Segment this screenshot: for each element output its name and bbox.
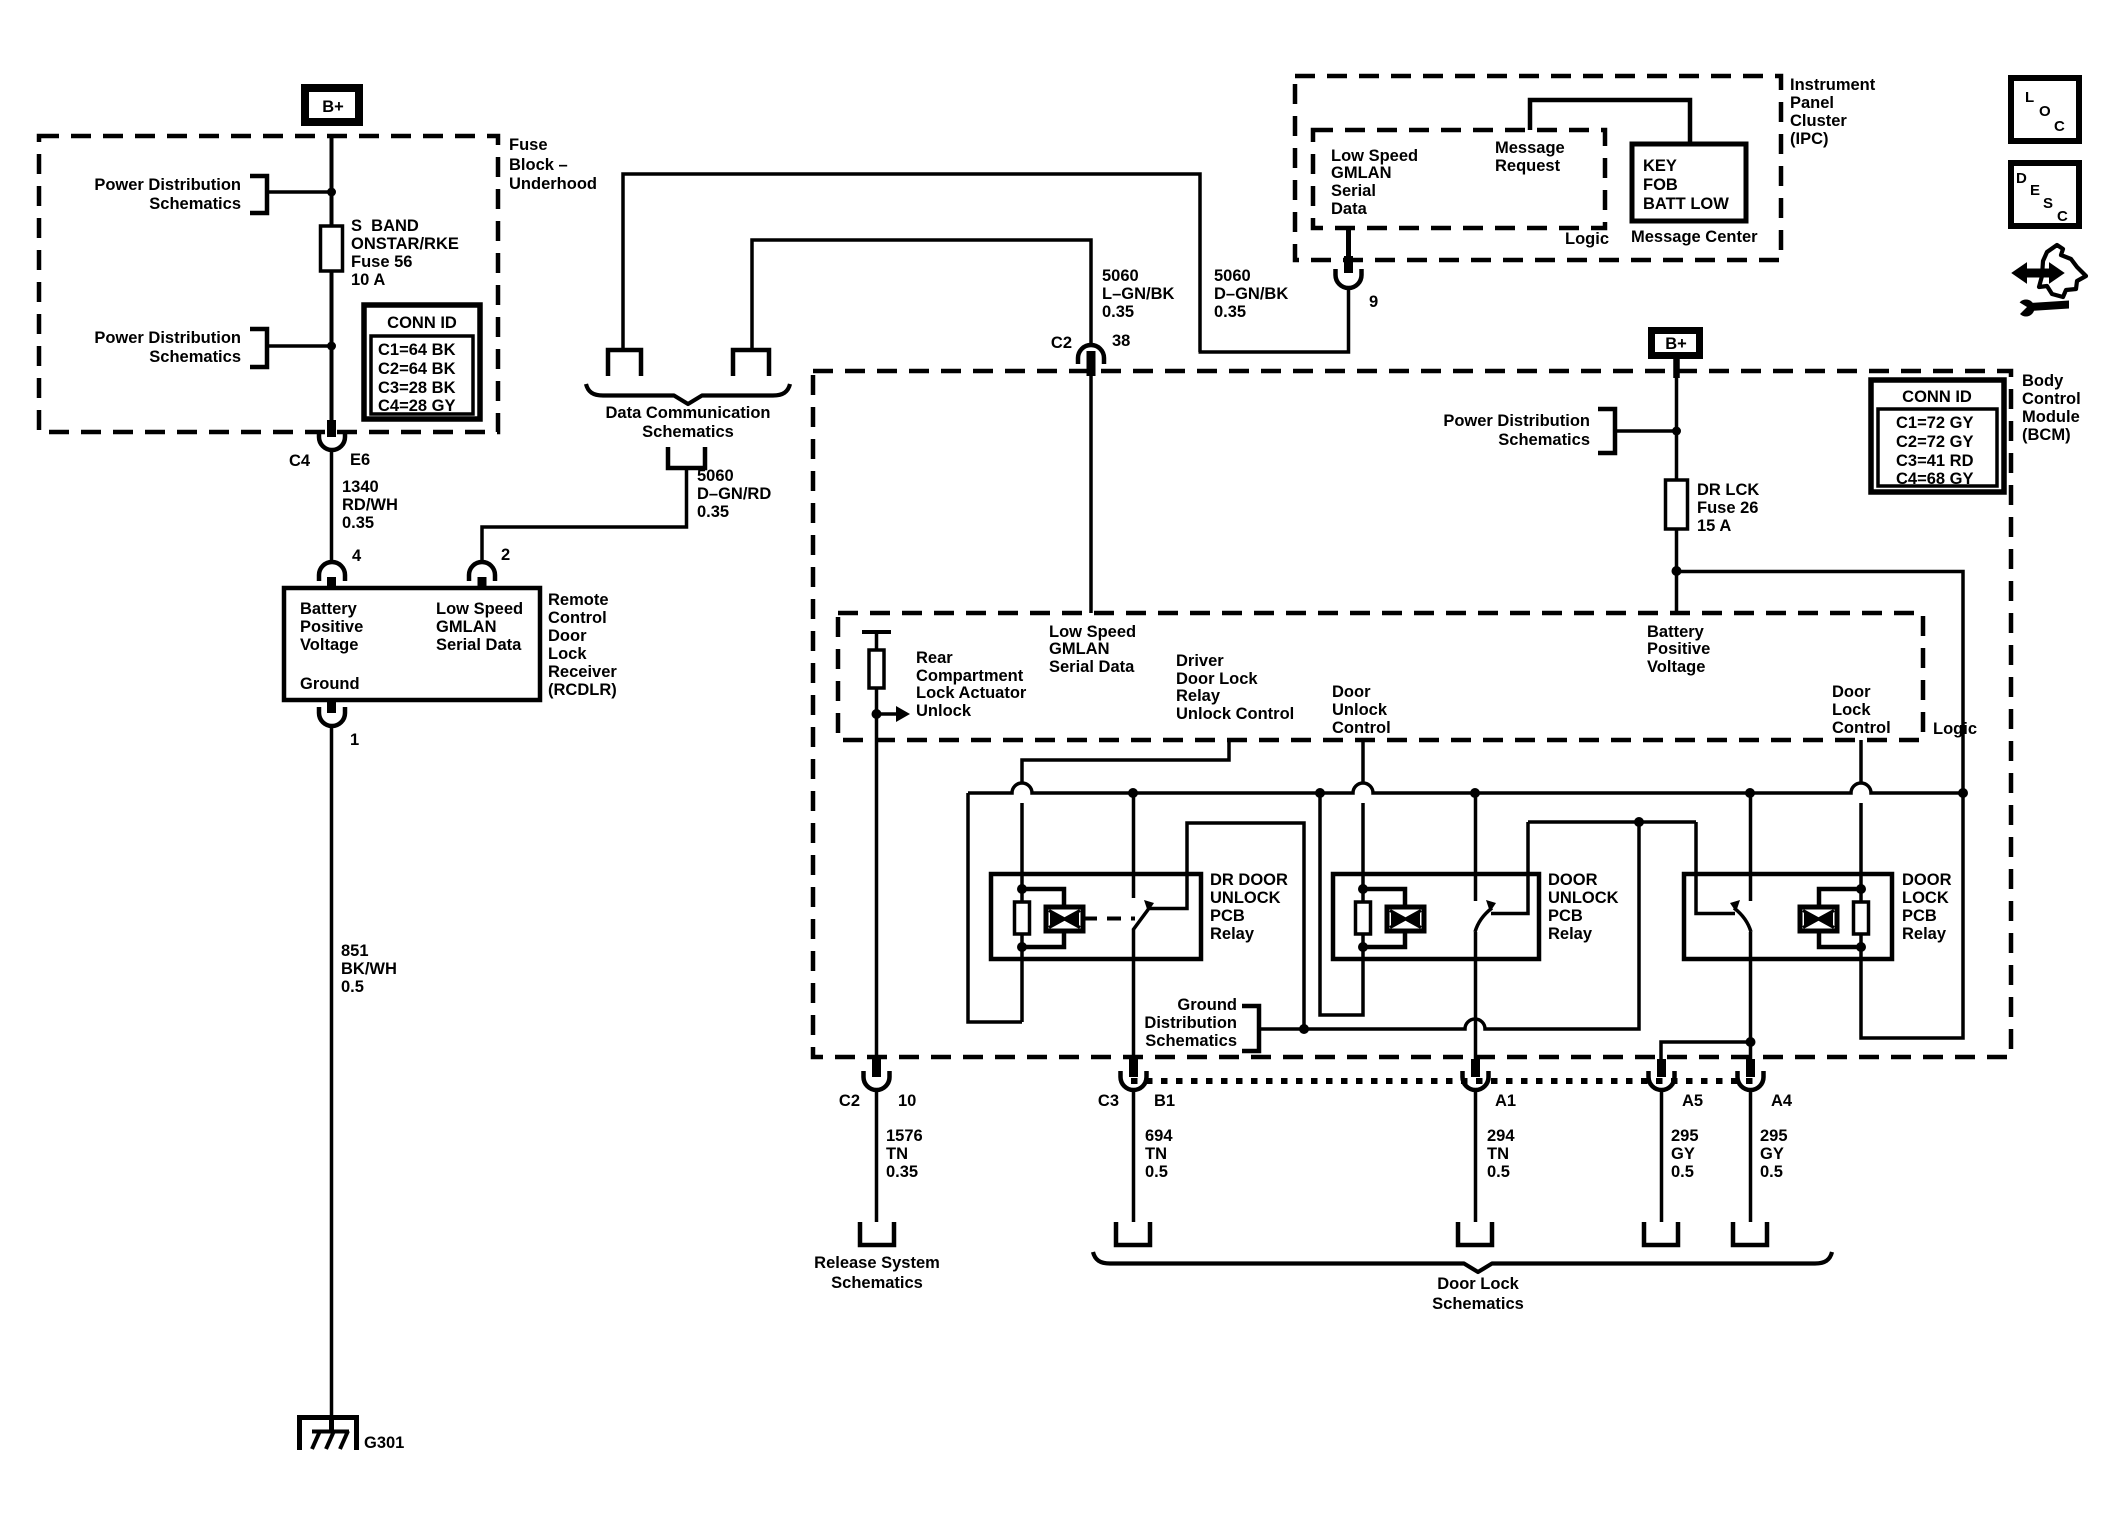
label rear compartment lock actuator unlock: [916, 649, 1027, 720]
wire data bus lower (to BCM C2): [752, 240, 1091, 350]
svg-text:Relay: Relay: [1548, 925, 1593, 943]
terminal A4: [1733, 1222, 1767, 1245]
svg-text:E6: E6: [350, 451, 370, 469]
node junction upper PDS: [327, 188, 336, 197]
svg-text:A1: A1: [1495, 1092, 1516, 1110]
svg-text:Driver: Driver: [1176, 652, 1224, 670]
svg-text:D–GN/RD: D–GN/RD: [697, 485, 771, 503]
svg-text:G301: G301: [364, 1434, 404, 1452]
svg-text:Rear: Rear: [916, 649, 953, 667]
B+ battery positive symbol (fuse block feed): [305, 88, 359, 122]
svg-text:Fuse 26: Fuse 26: [1697, 499, 1758, 517]
svg-text:C3: C3: [1098, 1092, 1119, 1110]
rear compartment lock actuator element: [862, 632, 910, 1059]
pin 1 connector (RCDLR ground): [319, 700, 359, 749]
svg-text:0.5: 0.5: [1671, 1163, 1694, 1181]
svg-text:Relay: Relay: [1176, 687, 1221, 705]
svg-text:Logic: Logic: [1565, 230, 1609, 248]
fuse 26 DR LCK: [1666, 480, 1760, 535]
svg-text:PCB: PCB: [1548, 907, 1583, 925]
relay 2 coil return to bus: [1320, 793, 1363, 1015]
svg-text:15 A: 15 A: [1697, 517, 1731, 535]
svg-text:0.5: 0.5: [341, 978, 364, 996]
terminal (data communication left): [608, 350, 641, 376]
relay 1 switch: [1133, 793, 1304, 1029]
brace data communication: [586, 384, 790, 404]
svg-text:L: L: [2025, 89, 2034, 106]
svg-text:O: O: [2039, 103, 2051, 120]
svg-text:Door: Door: [1332, 683, 1371, 701]
bus left return leg (relay 1 coil return): [968, 793, 1022, 1022]
node bus to relay 1 switch: [1128, 788, 1138, 798]
label driver door lock relay unlock control: [1176, 652, 1294, 723]
label door lock control: [1832, 683, 1891, 737]
label door unlock control: [1332, 683, 1391, 737]
wire GMLAN into BCM logic: [1089, 374, 1093, 613]
svg-text:5060: 5060: [1102, 267, 1139, 285]
svg-text:Schematics: Schematics: [1145, 1032, 1237, 1050]
relay 2 switch common to A1: [1474, 932, 1478, 1060]
pin 4 connector (RCDLR): [319, 547, 362, 590]
wire 294 TN 0.5: [1474, 1090, 1478, 1222]
svg-text:Module: Module: [2022, 408, 2080, 426]
terminal B1: [1116, 1222, 1150, 1245]
node A5/A4 tie: [1746, 1037, 1756, 1047]
svg-text:10: 10: [898, 1092, 916, 1110]
instrument panel cluster dashed box: [1295, 76, 1781, 260]
svg-text:1: 1: [350, 731, 359, 749]
connector C2 pin 38 (BCM): [1051, 332, 1130, 376]
svg-text:Low Speed: Low Speed: [436, 600, 523, 618]
svg-text:Positive: Positive: [1647, 640, 1710, 658]
wire 5060 D-GN/RD 0.35 to pin 2: [482, 468, 687, 562]
svg-text:38: 38: [1112, 332, 1130, 350]
IPC logic dashed box: [1313, 130, 1605, 228]
wire driver door lock relay unlock control: [1022, 740, 1229, 783]
svg-text:Serial Data: Serial Data: [1049, 658, 1135, 676]
relay 3 coil winding: [1800, 889, 1861, 947]
svg-text:S BAND: S BAND: [351, 217, 419, 235]
svg-text:Underhood: Underhood: [509, 175, 597, 193]
RCDLR label: [548, 591, 617, 699]
svg-text:GY: GY: [1671, 1145, 1695, 1163]
body control module dashed box: [813, 371, 2011, 1057]
node junction lower PDS: [327, 342, 336, 351]
svg-text:Ground: Ground: [300, 675, 360, 693]
relay 1 label: [1210, 871, 1288, 943]
wire 295 GY 0.5 (A4): [1749, 1090, 1753, 1222]
svg-text:Serial Data: Serial Data: [436, 636, 522, 654]
node bus to relay 3 switch: [1745, 788, 1755, 798]
svg-text:D: D: [2016, 170, 2027, 187]
RCDLR module box: [284, 588, 540, 700]
node bus right feed: [1958, 788, 1968, 798]
relay 3 switch: [1696, 793, 1751, 932]
svg-text:C4=68 GY: C4=68 GY: [1896, 470, 1974, 488]
bracket under schematics: [668, 447, 705, 468]
svg-text:Door Lock: Door Lock: [1176, 670, 1258, 688]
svg-text:Door: Door: [1832, 683, 1871, 701]
service tool icon (double arrow and wrench): [2013, 245, 2086, 317]
node ground to relay 1 switch output: [1299, 1024, 1309, 1034]
relay 2 coil winding: [1363, 889, 1424, 947]
svg-text:Schematics: Schematics: [149, 195, 241, 213]
node ground to relay 2/3 switch outputs: [1634, 817, 1644, 827]
svg-text:Relay: Relay: [1210, 925, 1255, 943]
svg-text:Cluster: Cluster: [1790, 112, 1847, 130]
node junction PDS (BCM): [1672, 427, 1681, 436]
svg-text:C2=72 GY: C2=72 GY: [1896, 433, 1974, 451]
svg-text:9: 9: [1369, 293, 1378, 311]
svg-text:DOOR: DOOR: [1902, 871, 1952, 889]
svg-text:1340: 1340: [342, 478, 379, 496]
svg-text:B1: B1: [1154, 1092, 1175, 1110]
svg-text:Control: Control: [548, 609, 607, 627]
svg-text:851: 851: [341, 942, 369, 960]
svg-text:E: E: [2030, 182, 2040, 199]
label low speed GMLAN serial data (BCM): [1049, 623, 1136, 676]
svg-text:Voltage: Voltage: [300, 636, 358, 654]
svg-text:Fuse: Fuse: [509, 136, 548, 154]
svg-text:0.5: 0.5: [1145, 1163, 1168, 1181]
svg-text:Data: Data: [1331, 200, 1368, 218]
connector C4/E6: [289, 420, 370, 470]
LOC reference box: [2011, 78, 2079, 141]
svg-text:C4: C4: [289, 452, 311, 470]
terminal A5: [1644, 1222, 1678, 1245]
svg-text:PCB: PCB: [1210, 907, 1245, 925]
svg-text:C2=64 BK: C2=64 BK: [378, 360, 456, 378]
CONN ID table (BCM): [1871, 380, 2004, 492]
wire A5 branch: [1661, 1042, 1750, 1060]
svg-text:Serial: Serial: [1331, 182, 1376, 200]
svg-text:Logic: Logic: [1933, 720, 1977, 738]
CONN ID table (fuse block): [364, 305, 480, 419]
svg-text:UNLOCK: UNLOCK: [1548, 889, 1619, 907]
svg-text:A4: A4: [1771, 1092, 1793, 1110]
svg-text:C2: C2: [839, 1092, 860, 1110]
terminal release system: [860, 1222, 894, 1245]
svg-text:1576: 1576: [886, 1127, 923, 1145]
power distribution schematics label (upper): [94, 176, 267, 213]
svg-text:0.5: 0.5: [1760, 1163, 1783, 1181]
message center KEY FOB BATT LOW box: [1632, 144, 1746, 221]
svg-text:TN: TN: [1487, 1145, 1509, 1163]
node bus to relay 2 switch: [1470, 788, 1480, 798]
svg-text:694: 694: [1145, 1127, 1173, 1145]
svg-text:GMLAN: GMLAN: [1331, 164, 1392, 182]
DESC reference box: [2011, 163, 2079, 226]
svg-text:0.35: 0.35: [1214, 303, 1246, 321]
svg-text:DOOR: DOOR: [1548, 871, 1598, 889]
svg-text:Low Speed: Low Speed: [1049, 623, 1136, 641]
ground G301: [297, 1415, 404, 1452]
terminal A1: [1458, 1222, 1492, 1245]
svg-text:C1=64 BK: C1=64 BK: [378, 341, 456, 359]
terminal (data communication right): [733, 350, 769, 376]
svg-text:DR DOOR: DR DOOR: [1210, 871, 1288, 889]
wire 1340 RD/WH 0.35: [330, 450, 334, 562]
svg-text:UNLOCK: UNLOCK: [1210, 889, 1281, 907]
svg-text:0.35: 0.35: [697, 503, 729, 521]
svg-text:B+: B+: [1665, 335, 1687, 353]
relay 1 coil resistor: [1015, 884, 1030, 952]
wire data bus upper (to IPC pin 9 branch): [623, 174, 1200, 352]
svg-text:FOB: FOB: [1643, 176, 1678, 194]
fuse 56 S BAND ONSTAR/RKE: [321, 217, 459, 289]
svg-text:Request: Request: [1495, 157, 1561, 175]
connector A4: [1738, 1059, 1793, 1110]
svg-text:Power Distribution: Power Distribution: [94, 329, 241, 347]
svg-text:Door: Door: [548, 627, 587, 645]
svg-text:0.35: 0.35: [342, 514, 374, 532]
svg-text:Body: Body: [2022, 372, 2064, 390]
wire fuse to logic box and right feed: [1675, 529, 1679, 613]
svg-text:LOCK: LOCK: [1902, 889, 1949, 907]
svg-text:C2: C2: [1051, 334, 1072, 352]
wire relay 2/3 switch outputs tie: [1528, 820, 1696, 824]
svg-text:PCB: PCB: [1902, 907, 1937, 925]
label battery positive voltage (BCM): [1647, 623, 1710, 676]
svg-text:C: C: [2057, 208, 2068, 225]
svg-text:C: C: [2054, 118, 2065, 135]
svg-text:KEY: KEY: [1643, 157, 1677, 175]
svg-text:GY: GY: [1760, 1145, 1784, 1163]
svg-text:5060: 5060: [697, 467, 734, 485]
svg-text:2: 2: [501, 546, 510, 564]
svg-text:C3=41 RD: C3=41 RD: [1896, 452, 1974, 470]
svg-text:RD/WH: RD/WH: [342, 496, 398, 514]
ground distribution wire with hop over A1: [1259, 822, 1639, 1029]
svg-text:Lock: Lock: [1832, 701, 1871, 719]
svg-text:Unlock: Unlock: [1332, 701, 1388, 719]
connector A1: [1463, 1059, 1517, 1110]
svg-text:Lock: Lock: [548, 645, 587, 663]
relay 1 box DR DOOR UNLOCK PCB Relay: [991, 874, 1201, 959]
svg-text:Control: Control: [1832, 719, 1891, 737]
connector A5: [1649, 1059, 1704, 1110]
svg-text:0.5: 0.5: [1487, 1163, 1510, 1181]
connector C3 pin B1: [1098, 1059, 1175, 1110]
fuse block - underhood dashed box: [39, 136, 498, 432]
svg-text:Power Distribution: Power Distribution: [94, 176, 241, 194]
svg-text:Schematics: Schematics: [831, 1274, 923, 1292]
inline harness connector dotted line: [1131, 1078, 1757, 1084]
svg-text:C3=28 BK: C3=28 BK: [378, 379, 456, 397]
svg-text:Data Communication: Data Communication: [605, 404, 770, 422]
ground distribution schematics label: [1144, 996, 1259, 1051]
svg-text:0.35: 0.35: [1102, 303, 1134, 321]
svg-text:TN: TN: [1145, 1145, 1167, 1163]
svg-text:C1=72 GY: C1=72 GY: [1896, 414, 1974, 432]
connector pin 9 (IPC): [1336, 228, 1379, 311]
svg-text:B+: B+: [322, 98, 344, 116]
svg-text:Relay: Relay: [1902, 925, 1947, 943]
relay 2 switch: [1475, 793, 1528, 932]
svg-text:A5: A5: [1682, 1092, 1703, 1110]
relay 1 coil winding: [1022, 889, 1083, 947]
wire feed to relay bus (right side): [1676, 572, 1963, 794]
power distribution schematics label (lower): [94, 329, 267, 367]
relay 2 label: [1548, 871, 1619, 943]
relay 2 box DOOR UNLOCK PCB Relay: [1333, 874, 1539, 959]
relay 1 coil-switch dashed link: [1083, 917, 1135, 921]
wire bracket to B+ line (lower): [267, 344, 331, 348]
svg-text:Remote: Remote: [548, 591, 609, 609]
svg-text:Compartment: Compartment: [916, 667, 1024, 685]
relay 3 coil return to bus: [1861, 793, 1963, 1038]
relay 1 switch common to B1: [1132, 929, 1136, 1060]
power distribution schematics label (BCM): [1443, 409, 1615, 453]
svg-text:Schematics: Schematics: [642, 423, 734, 441]
svg-text:BK/WH: BK/WH: [341, 960, 397, 978]
svg-text:Message: Message: [1495, 139, 1565, 157]
svg-text:Ground: Ground: [1177, 996, 1237, 1014]
BCM logic dashed box: [838, 613, 1923, 740]
svg-text:0.35: 0.35: [886, 1163, 918, 1181]
relay 3 coil resistor: [1854, 884, 1869, 952]
node bus to relay 2 coil return: [1315, 788, 1325, 798]
wire bracket to B+ line (upper): [267, 190, 331, 194]
svg-text:BATT LOW: BATT LOW: [1643, 195, 1729, 213]
svg-text:Fuse 56: Fuse 56: [351, 253, 412, 271]
pin 2 connector (RCDLR): [469, 546, 510, 590]
svg-text:Lock Actuator: Lock Actuator: [916, 684, 1027, 702]
wire 851 BK/WH 0.5 to G301: [330, 726, 334, 1418]
svg-text:Receiver: Receiver: [548, 663, 617, 681]
svg-text:TN: TN: [886, 1145, 908, 1163]
wire pin 9 to data bus: [1199, 288, 1349, 352]
svg-text:(RCDLR): (RCDLR): [548, 681, 617, 699]
svg-text:CONN ID: CONN ID: [387, 314, 457, 332]
relay 3 switch common to A4/A5: [1749, 932, 1753, 1060]
wire 295 GY 0.5 (A5): [1660, 1090, 1664, 1222]
svg-text:(IPC): (IPC): [1790, 130, 1829, 148]
svg-text:4: 4: [352, 547, 362, 565]
svg-text:10 A: 10 A: [351, 271, 385, 289]
svg-text:Panel: Panel: [1790, 94, 1834, 112]
wire message request to message center: [1530, 100, 1690, 144]
svg-text:L–GN/BK: L–GN/BK: [1102, 285, 1175, 303]
brace door lock schematics: [1093, 1252, 1832, 1272]
svg-text:GMLAN: GMLAN: [1049, 640, 1110, 658]
relay 2 coil resistor: [1356, 884, 1371, 952]
wire bracket to B+ line (BCM): [1615, 429, 1676, 433]
svg-text:Positive: Positive: [300, 618, 363, 636]
svg-text:Instrument: Instrument: [1790, 76, 1876, 94]
relay 3 box DOOR LOCK PCB Relay: [1684, 874, 1892, 959]
svg-text:Release System: Release System: [814, 1254, 940, 1272]
svg-text:(BCM): (BCM): [2022, 426, 2071, 444]
svg-text:Schematics: Schematics: [1432, 1295, 1524, 1313]
svg-text:5060: 5060: [1214, 267, 1251, 285]
svg-text:D–GN/BK: D–GN/BK: [1214, 285, 1288, 303]
svg-text:Unlock Control: Unlock Control: [1176, 705, 1294, 723]
svg-text:Distribution: Distribution: [1144, 1014, 1237, 1032]
wire B+ stub into fuse block: [330, 137, 334, 437]
svg-text:Battery: Battery: [300, 600, 358, 618]
wire door unlock control: [1361, 740, 1365, 783]
svg-text:GMLAN: GMLAN: [436, 618, 497, 636]
wire 694 TN 0.5: [1132, 1090, 1136, 1222]
svg-text:Battery: Battery: [1647, 623, 1705, 641]
battery bus wire with hops: [968, 783, 1963, 793]
svg-text:294: 294: [1487, 1127, 1515, 1145]
svg-text:CONN ID: CONN ID: [1902, 388, 1972, 406]
svg-text:Low Speed: Low Speed: [1331, 147, 1418, 165]
svg-text:Block –: Block –: [509, 156, 568, 174]
svg-text:Schematics: Schematics: [1498, 431, 1590, 449]
svg-text:Power Distribution: Power Distribution: [1443, 412, 1590, 430]
svg-text:Unlock: Unlock: [916, 702, 972, 720]
svg-text:Control: Control: [2022, 390, 2081, 408]
svg-text:Control: Control: [1332, 719, 1391, 737]
svg-text:Message Center: Message Center: [1631, 228, 1758, 246]
svg-text:ONSTAR/RKE: ONSTAR/RKE: [351, 235, 459, 253]
svg-text:Schematics: Schematics: [149, 348, 241, 366]
wire door lock control: [1859, 740, 1863, 783]
svg-text:S: S: [2043, 195, 2053, 212]
wire 1576 TN 0.35: [875, 1090, 879, 1222]
relay 3 label: [1902, 871, 1952, 943]
svg-text:295: 295: [1760, 1127, 1788, 1145]
connector C2 pin 10: [839, 1059, 916, 1110]
B+ battery positive symbol (BCM feed): [1652, 331, 1700, 356]
node junction fuse output: [1672, 566, 1682, 576]
wire B+ into BCM: [1673, 358, 1680, 378]
svg-text:DR LCK: DR LCK: [1697, 481, 1759, 499]
svg-text:295: 295: [1671, 1127, 1699, 1145]
svg-text:C4=28 GY: C4=28 GY: [378, 397, 456, 415]
svg-text:Door Lock: Door Lock: [1437, 1275, 1519, 1293]
svg-text:Voltage: Voltage: [1647, 658, 1705, 676]
